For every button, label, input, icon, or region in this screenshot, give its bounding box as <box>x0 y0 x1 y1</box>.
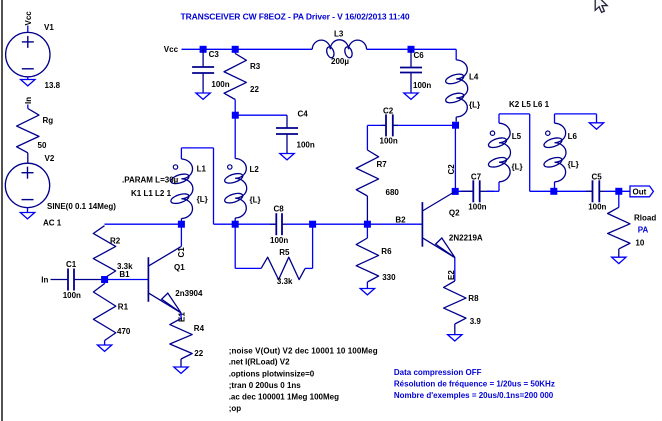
directive .ac <box>229 392 339 401</box>
svg-text:.net I(RLoad) V2: .net I(RLoad) V2 <box>229 358 290 367</box>
svg-text:Data compression OFF: Data compression OFF <box>394 368 482 377</box>
label R5 <box>279 248 290 257</box>
label R1 <box>118 303 129 312</box>
svg-text:{L}: {L} <box>250 196 261 205</box>
node C8-R5 junction <box>309 221 316 228</box>
phase dot L2 <box>228 165 232 169</box>
ground at L6 top <box>589 123 603 129</box>
svg-text:Nombre d'exemples = 20us/0.1ns: Nombre d'exemples = 20us/0.1ns=200 000 <box>394 391 554 400</box>
node L2 bottom junction <box>232 221 239 228</box>
svg-text:L5: L5 <box>512 132 522 141</box>
capacitor C4 <box>276 115 298 153</box>
svg-text:;noise V(Out) V2 dec 10001 10: ;noise V(Out) V2 dec 10001 10 100Meg <box>229 346 378 355</box>
label C1 <box>66 260 77 269</box>
svg-text:B1: B1 <box>119 270 130 279</box>
svg-text:L4: L4 <box>469 73 479 82</box>
wire C8 to B2 row <box>287 223 422 225</box>
phase dot L1 <box>173 165 177 169</box>
value 2n3904 <box>175 289 203 298</box>
svg-text:100n: 100n <box>588 203 606 212</box>
ground below R1 <box>97 345 111 351</box>
directive ;tran <box>229 381 302 390</box>
wire C2 to R7 <box>366 125 368 150</box>
wire C7 row <box>455 190 472 192</box>
svg-text:C1: C1 <box>177 247 186 258</box>
wire R5 right branch <box>305 224 313 268</box>
label C7 <box>471 173 482 182</box>
net label In (C1 left) <box>41 276 48 285</box>
transistor Q1 <box>148 247 181 313</box>
ground below V2 <box>20 208 34 219</box>
svg-text:Vcc: Vcc <box>164 45 179 54</box>
value {L} (L5) <box>512 163 523 172</box>
resistor R5 <box>261 257 305 279</box>
wire In to Rg <box>27 105 29 109</box>
label L2 <box>250 165 260 174</box>
value 10 (Rload) <box>635 238 644 247</box>
directive .net <box>229 358 290 367</box>
svg-text:22: 22 <box>194 349 203 358</box>
svg-text:R7: R7 <box>377 160 388 169</box>
wire L6 top route to ground <box>555 114 597 123</box>
label R7 <box>377 160 388 169</box>
value 100n (C6) <box>413 81 431 90</box>
svg-text:E1: E1 <box>178 312 187 322</box>
svg-text:L3: L3 <box>334 30 344 39</box>
wire L1 node to Q1 collector <box>180 224 182 246</box>
inductor L4 <box>445 60 468 122</box>
label C3 <box>209 50 220 59</box>
label R4 <box>194 324 205 333</box>
wire Q2 emitter to R8 <box>454 258 456 281</box>
svg-text:TRANSCEIVER CW F8EOZ - PA Driv: TRANSCEIVER CW F8EOZ - PA Driver - V 16/… <box>181 11 410 21</box>
node B1 junction <box>101 276 108 283</box>
wire base B1 to Q1 <box>105 279 149 281</box>
label R2 <box>110 237 121 246</box>
label L3 <box>334 30 344 39</box>
svg-text:R6: R6 <box>381 247 392 256</box>
net label E2 (rotated, emitter) <box>447 270 456 280</box>
capacitor C6 <box>400 49 422 93</box>
svg-text:{L}: {L} <box>197 195 208 204</box>
ground below R8 <box>448 335 462 341</box>
directive ;op <box>229 404 242 413</box>
wire Vcc rail right <box>367 49 457 60</box>
capacitor C1 <box>51 269 105 291</box>
node C6 junction <box>408 46 415 53</box>
directive ;noise <box>229 346 378 355</box>
value {L} (L2) <box>250 196 261 205</box>
window left border <box>1 0 3 421</box>
svg-text:K2 L5 L6 1: K2 L5 L6 1 <box>509 100 550 109</box>
wire C2 row <box>367 124 455 126</box>
directive .options <box>229 369 315 378</box>
value 680 (R7) <box>386 188 400 197</box>
svg-text:680: 680 <box>386 188 400 197</box>
phase dot L6 <box>546 131 550 135</box>
svg-text:C2: C2 <box>447 164 456 175</box>
svg-text:200µ: 200µ <box>331 57 349 66</box>
wire Q1 emitter to R4 <box>180 313 182 319</box>
label L6 <box>568 132 578 141</box>
inductor L2 <box>224 159 247 222</box>
net label PA <box>638 225 649 234</box>
node C3 junction <box>200 46 207 53</box>
wire out row <box>530 190 592 192</box>
node Q2 collector junction <box>452 188 459 195</box>
label Rg <box>43 116 54 125</box>
svg-text:SINE(0 0.1 14Meg): SINE(0 0.1 14Meg) <box>47 202 116 211</box>
node R3-C4-L2 junction <box>232 112 239 119</box>
value 100n (C8) <box>270 236 288 245</box>
node Out junction <box>615 188 622 195</box>
label R8 <box>468 294 479 303</box>
svg-text:B2: B2 <box>395 216 406 225</box>
value {L} (L6) <box>568 160 579 169</box>
resistor R6 <box>356 224 378 288</box>
svg-text:{L}: {L} <box>469 101 480 110</box>
value 100n (C7) <box>468 203 486 212</box>
wire L1 top route <box>181 148 235 224</box>
svg-text:{L}: {L} <box>512 163 523 172</box>
voltage source V1 <box>6 32 50 76</box>
ground below V1 <box>21 77 35 86</box>
svg-text:R4: R4 <box>194 324 205 333</box>
value 2N2219A <box>449 234 483 243</box>
wire R5 left branch <box>235 224 261 268</box>
node R3 junction <box>232 46 239 53</box>
net label Vcc (rotated, V1 top) <box>24 11 33 26</box>
resistor R7 <box>356 150 378 224</box>
svg-text:13.8: 13.8 <box>45 81 61 90</box>
resistor R8 <box>444 281 466 335</box>
svg-text:R2: R2 <box>110 237 121 246</box>
svg-text:C5: C5 <box>592 173 603 182</box>
wire R3 node to C4 <box>235 114 287 116</box>
svg-text:In: In <box>24 97 33 104</box>
value 200u (L3) <box>331 57 349 66</box>
svg-text:V2: V2 <box>45 154 55 163</box>
svg-text:;op: ;op <box>229 404 242 413</box>
label C6 <box>414 51 425 60</box>
node B2 junction <box>364 221 371 228</box>
label L4 <box>469 73 479 82</box>
comment Data compression OFF <box>394 368 482 377</box>
directive K2 L5 L6 1 <box>509 100 550 109</box>
svg-text:3.9: 3.9 <box>470 317 482 326</box>
port flag Out <box>630 186 653 197</box>
capacitor C3 <box>192 49 214 93</box>
net label Vcc (rail) <box>164 45 179 54</box>
label Q2 <box>449 209 460 218</box>
svg-text:Rload: Rload <box>634 214 656 223</box>
svg-text:10: 10 <box>635 238 644 247</box>
svg-text:Vcc: Vcc <box>24 11 33 26</box>
svg-text:50: 50 <box>38 141 47 150</box>
wire Vcc rail left <box>182 48 313 50</box>
phase dot L5 <box>490 131 494 135</box>
label C8 <box>274 205 285 214</box>
svg-text:100n: 100n <box>211 80 229 89</box>
svg-text:470: 470 <box>117 327 131 336</box>
svg-text:100n: 100n <box>270 236 288 245</box>
value 100n (C3) <box>211 80 229 89</box>
svg-text:C7: C7 <box>471 173 482 182</box>
svg-text:K1 L1 L2 1: K1 L1 L2 1 <box>131 189 172 198</box>
net label C2 (rotated, collector) <box>447 164 456 175</box>
svg-text:C1: C1 <box>66 260 77 269</box>
svg-text:AC 1: AC 1 <box>43 219 62 228</box>
wire L5 top route <box>499 114 530 191</box>
value {L} (L1) <box>197 195 208 204</box>
value {L} (L4) <box>469 101 480 110</box>
value 330 (R6) <box>382 273 396 282</box>
svg-text:R3: R3 <box>250 62 261 71</box>
wire V1 top stub <box>27 26 29 34</box>
svg-text:.PARAM L=30µ: .PARAM L=30µ <box>122 176 179 185</box>
label Q1 <box>174 263 185 272</box>
node L1 bottom junction <box>178 221 185 228</box>
ground below R6 <box>360 289 374 295</box>
resistor Rload <box>608 207 630 257</box>
resistor R3 <box>224 49 246 115</box>
wire C7 to L5 <box>487 182 499 192</box>
inductor L5 <box>487 123 510 182</box>
node L4 bottom junction <box>452 122 459 129</box>
wire R2 top to L1 node <box>105 223 182 225</box>
voltage source V2 <box>5 163 49 207</box>
ground below R4 <box>174 367 188 373</box>
svg-text:C2: C2 <box>383 107 394 116</box>
comment Resolution de frequence <box>394 380 555 389</box>
resistor Rg <box>17 109 39 164</box>
ground below C4 <box>280 154 294 160</box>
net label In (rotated, Rg top) <box>24 97 33 104</box>
svg-text:100n: 100n <box>297 141 315 150</box>
title text <box>181 11 410 21</box>
svg-text:R5: R5 <box>279 248 290 257</box>
value SINE(0 0.1 14Meg) <box>47 202 116 211</box>
value 470 (R1) <box>117 327 131 336</box>
label C2 <box>383 107 394 116</box>
ground below C6 <box>404 93 418 99</box>
svg-text:L1: L1 <box>197 165 207 174</box>
net label B1 <box>119 270 130 279</box>
inductor L1 <box>170 159 193 221</box>
wire Q2 collector vertical <box>454 125 456 191</box>
value 100n (C2) <box>380 137 398 146</box>
directive K1 L1 L2 1 <box>131 189 172 198</box>
svg-text:Rg: Rg <box>43 116 54 125</box>
net label E1 (rotated, emitter) <box>178 312 187 322</box>
value 22 (R3) <box>250 85 259 94</box>
transistor Q2 <box>422 192 455 258</box>
wire C5 to Out <box>605 190 630 192</box>
svg-text:2N2219A: 2N2219A <box>449 234 483 243</box>
value 50 <box>38 141 47 150</box>
node L6 bottom junction <box>550 188 557 195</box>
label C4 <box>298 109 309 118</box>
svg-text:330: 330 <box>382 273 396 282</box>
resistor R2 <box>93 226 115 278</box>
svg-text:100n: 100n <box>468 203 486 212</box>
svg-text:C8: C8 <box>274 205 285 214</box>
svg-text:.options plotwinsize=0: .options plotwinsize=0 <box>229 369 315 378</box>
svg-text:R1: R1 <box>118 303 129 312</box>
value 13.8 <box>45 81 61 90</box>
capacitor C7 <box>461 180 494 202</box>
svg-text:PA: PA <box>638 225 649 234</box>
svg-text:Résolution de fréquence = 1/20: Résolution de fréquence = 1/20us = 50KHz <box>394 380 555 389</box>
svg-text:L2: L2 <box>250 165 260 174</box>
value 3.3k (R2) <box>117 262 133 271</box>
svg-text:22: 22 <box>250 85 259 94</box>
svg-text:C4: C4 <box>298 109 309 118</box>
label L5 <box>512 132 522 141</box>
ground below Rload <box>612 257 626 263</box>
value 100n (C5) <box>588 203 606 212</box>
value 100n (C4) <box>297 141 315 150</box>
label V1 <box>44 23 54 32</box>
svg-text:Out: Out <box>633 187 647 196</box>
wire R3 node down to L2 <box>234 115 236 158</box>
value AC 1 <box>43 219 62 228</box>
svg-text:100n: 100n <box>380 137 398 146</box>
svg-text:Q1: Q1 <box>174 263 185 272</box>
label C5 <box>592 173 603 182</box>
svg-text:.ac dec 100001 1Meg 100Meg: .ac dec 100001 1Meg 100Meg <box>229 392 339 401</box>
svg-text:C3: C3 <box>209 50 220 59</box>
svg-text:3.3k: 3.3k <box>277 277 293 286</box>
capacitor C8 <box>270 213 287 235</box>
svg-text:100n: 100n <box>413 81 431 90</box>
svg-text:In: In <box>41 276 48 285</box>
mouse cursor <box>595 0 607 12</box>
resistor R4 <box>170 319 192 368</box>
ground below C3 <box>196 93 210 99</box>
net label B2 <box>395 216 406 225</box>
svg-text:;tran 0 200us 0 1ns: ;tran 0 200us 0 1ns <box>229 381 302 390</box>
value 22 (R4) <box>194 349 203 358</box>
label L1 <box>197 165 207 174</box>
capacitor C2 <box>381 114 398 136</box>
comment Nombre d'exemples <box>394 391 554 400</box>
label Rload <box>634 214 656 223</box>
wire L2 node to C8 <box>235 223 276 225</box>
svg-text:Q2: Q2 <box>449 209 460 218</box>
capacitor C5 <box>586 180 605 202</box>
net label C1 (rotated, collector) <box>177 247 186 258</box>
label R3 <box>250 62 261 71</box>
svg-text:R8: R8 <box>468 294 479 303</box>
inductor L3 <box>312 40 366 59</box>
value 100n (C1) <box>63 291 81 300</box>
svg-text:L6: L6 <box>568 132 578 141</box>
svg-text:2n3904: 2n3904 <box>175 289 203 298</box>
svg-text:V1: V1 <box>44 23 54 32</box>
svg-text:{L}: {L} <box>568 160 579 169</box>
wire Out node to Rload <box>618 191 620 207</box>
svg-text:C6: C6 <box>414 51 425 60</box>
label R6 <box>381 247 392 256</box>
value 3.3k (R5) <box>277 277 293 286</box>
inductor L6 <box>543 123 566 182</box>
label V2 <box>45 154 55 163</box>
resistor R1 <box>93 280 115 346</box>
wire L6 bottom lead <box>554 182 556 192</box>
value 3.9 (R8) <box>470 317 482 326</box>
directive .PARAM L=30u <box>122 176 179 185</box>
svg-text:100n: 100n <box>63 291 81 300</box>
